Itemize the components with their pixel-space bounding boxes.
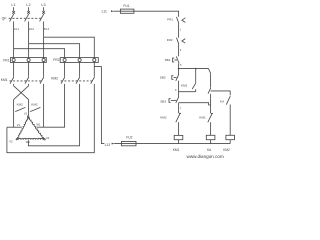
svg-text:KM2: KM2	[223, 148, 230, 152]
wire	[178, 23, 180, 37]
wire tap L1 to FR2	[14, 49, 65, 58]
svg-text:KM2: KM2	[160, 116, 167, 120]
contactor KM2 shorting contact a	[15, 103, 25, 112]
svg-text:FR1: FR1	[167, 18, 173, 22]
node A junction	[178, 68, 180, 70]
wire	[178, 63, 180, 74]
svg-text:www.diangon.com: www.diangon.com	[187, 154, 224, 159]
pushbutton SB2 start NO	[160, 74, 179, 81]
wire tap L3 to FR2	[44, 37, 95, 57]
wire motor left tap stub	[7, 126, 22, 128]
svg-text:5: 5	[180, 64, 182, 67]
contactor KM2 shorting contact b	[30, 103, 40, 112]
wire left tap wrap to KM2 output 3	[7, 84, 94, 153]
svg-text:QF: QF	[2, 17, 7, 21]
wire crossing out left down to motor left tap	[13, 100, 15, 128]
wire crossing out middle down to motor apex	[28, 100, 30, 116]
circuit breaker QF	[2, 14, 50, 31]
svg-text:L1: L1	[11, 3, 15, 7]
svg-text:FU2: FU2	[126, 135, 132, 139]
svg-text:L3: L3	[41, 3, 45, 7]
node L1	[11, 3, 15, 14]
svg-text:KM1: KM1	[181, 84, 188, 88]
wire control tap L13 from FR2 output	[94, 67, 104, 144]
contact KM2 NC interlock	[160, 113, 181, 122]
wire control bottom rail	[114, 143, 230, 145]
svg-text:L2: L2	[26, 3, 30, 7]
wire KM1 output 2 (to crossing)	[28, 84, 30, 86]
node L3	[41, 3, 45, 14]
svg-text:KM1: KM1	[173, 148, 180, 152]
wire middle column	[210, 94, 212, 113]
wire control top rail	[114, 11, 179, 17]
node L11	[102, 10, 114, 14]
contactor KM2 main contacts	[51, 77, 94, 84]
motor winding delta	[9, 112, 50, 144]
svg-text:V2: V2	[9, 140, 13, 144]
svg-text:KA: KA	[207, 148, 212, 152]
contact KA NO	[220, 96, 230, 105]
wire selfhold branch top	[179, 69, 211, 74]
svg-text:9: 9	[175, 89, 177, 92]
wire selfhold rejoin	[179, 91, 196, 93]
wire	[178, 122, 180, 135]
wire L2 phase down to FR1	[28, 21, 30, 57]
contact KM1 NO selfhold	[181, 69, 196, 92]
pushbutton SB3 NO	[160, 97, 179, 104]
coil KM2	[223, 135, 234, 152]
wire	[178, 103, 180, 113]
svg-text:W1: W1	[36, 123, 41, 127]
wire crossing phase swap	[14, 86, 29, 100]
wire KM1 output 3 down to motor right tap	[43, 84, 45, 127]
junction dot	[195, 68, 197, 70]
wire tap L2 to FR2	[29, 44, 80, 58]
thermal overload relay FR2	[53, 58, 98, 63]
wire branch to middle column	[179, 103, 211, 105]
svg-text:L13: L13	[105, 143, 111, 147]
contact middle column NO	[208, 88, 211, 94]
svg-text:7: 7	[180, 107, 182, 110]
coil KA	[206, 135, 215, 152]
svg-text:FR2: FR2	[53, 58, 59, 62]
svg-text:1/L1: 1/L1	[14, 27, 20, 31]
wire	[210, 122, 212, 135]
wire FR2 outputs to KM2	[65, 63, 95, 77]
pushbutton SB1 stop NC	[165, 56, 180, 63]
node L13	[105, 143, 115, 147]
wire	[178, 81, 180, 97]
svg-text:KM2: KM2	[17, 103, 24, 107]
svg-text:U2: U2	[46, 136, 50, 140]
contact FR1 NC (control)	[167, 17, 185, 24]
svg-text:KA: KA	[220, 99, 225, 103]
wire motor base tap wrap to KM2 output 2	[28, 84, 79, 146]
wire middle column upper	[210, 73, 212, 87]
svg-text:KM2: KM2	[31, 103, 38, 107]
contact FR2 NC (control)	[167, 38, 186, 45]
svg-text:FU1: FU1	[123, 4, 129, 8]
svg-text:SB3: SB3	[160, 100, 166, 104]
wire branch to KA column	[211, 91, 231, 96]
svg-text:5/L3: 5/L3	[44, 27, 50, 31]
fuse FU1	[120, 4, 133, 13]
svg-text:SB1: SB1	[165, 58, 171, 62]
svg-text:KM2: KM2	[51, 77, 58, 81]
wire motor right tap stub to KM2 output 1	[37, 84, 65, 127]
svg-text:1: 1	[180, 29, 182, 32]
fuse FU2	[121, 135, 136, 145]
svg-text:FR2: FR2	[167, 38, 173, 42]
wire KA column	[229, 105, 231, 136]
svg-text:L11: L11	[102, 10, 107, 14]
contactor KM1 main contacts	[1, 77, 44, 84]
wire	[178, 44, 180, 56]
thermal overload relay FR1	[3, 58, 46, 63]
wire L1 phase down to FR1	[13, 21, 15, 57]
coil KM1	[173, 135, 183, 152]
wire KM1 output 1 (to crossing)	[13, 84, 15, 86]
svg-text:3/L2: 3/L2	[29, 27, 35, 31]
node L2	[26, 3, 30, 14]
svg-text:KM1: KM1	[1, 78, 8, 82]
svg-text:KM1: KM1	[199, 116, 206, 120]
svg-text:FR1: FR1	[3, 58, 9, 62]
wire L3 phase down to FR1	[43, 21, 45, 57]
contact KM1 NC interlock	[199, 113, 213, 122]
svg-text:3: 3	[180, 49, 182, 52]
svg-text:V1: V1	[17, 123, 21, 127]
svg-text:U1: U1	[24, 112, 28, 116]
wire FR1 outputs to KM1	[14, 63, 44, 77]
svg-text:SB2: SB2	[160, 76, 166, 80]
